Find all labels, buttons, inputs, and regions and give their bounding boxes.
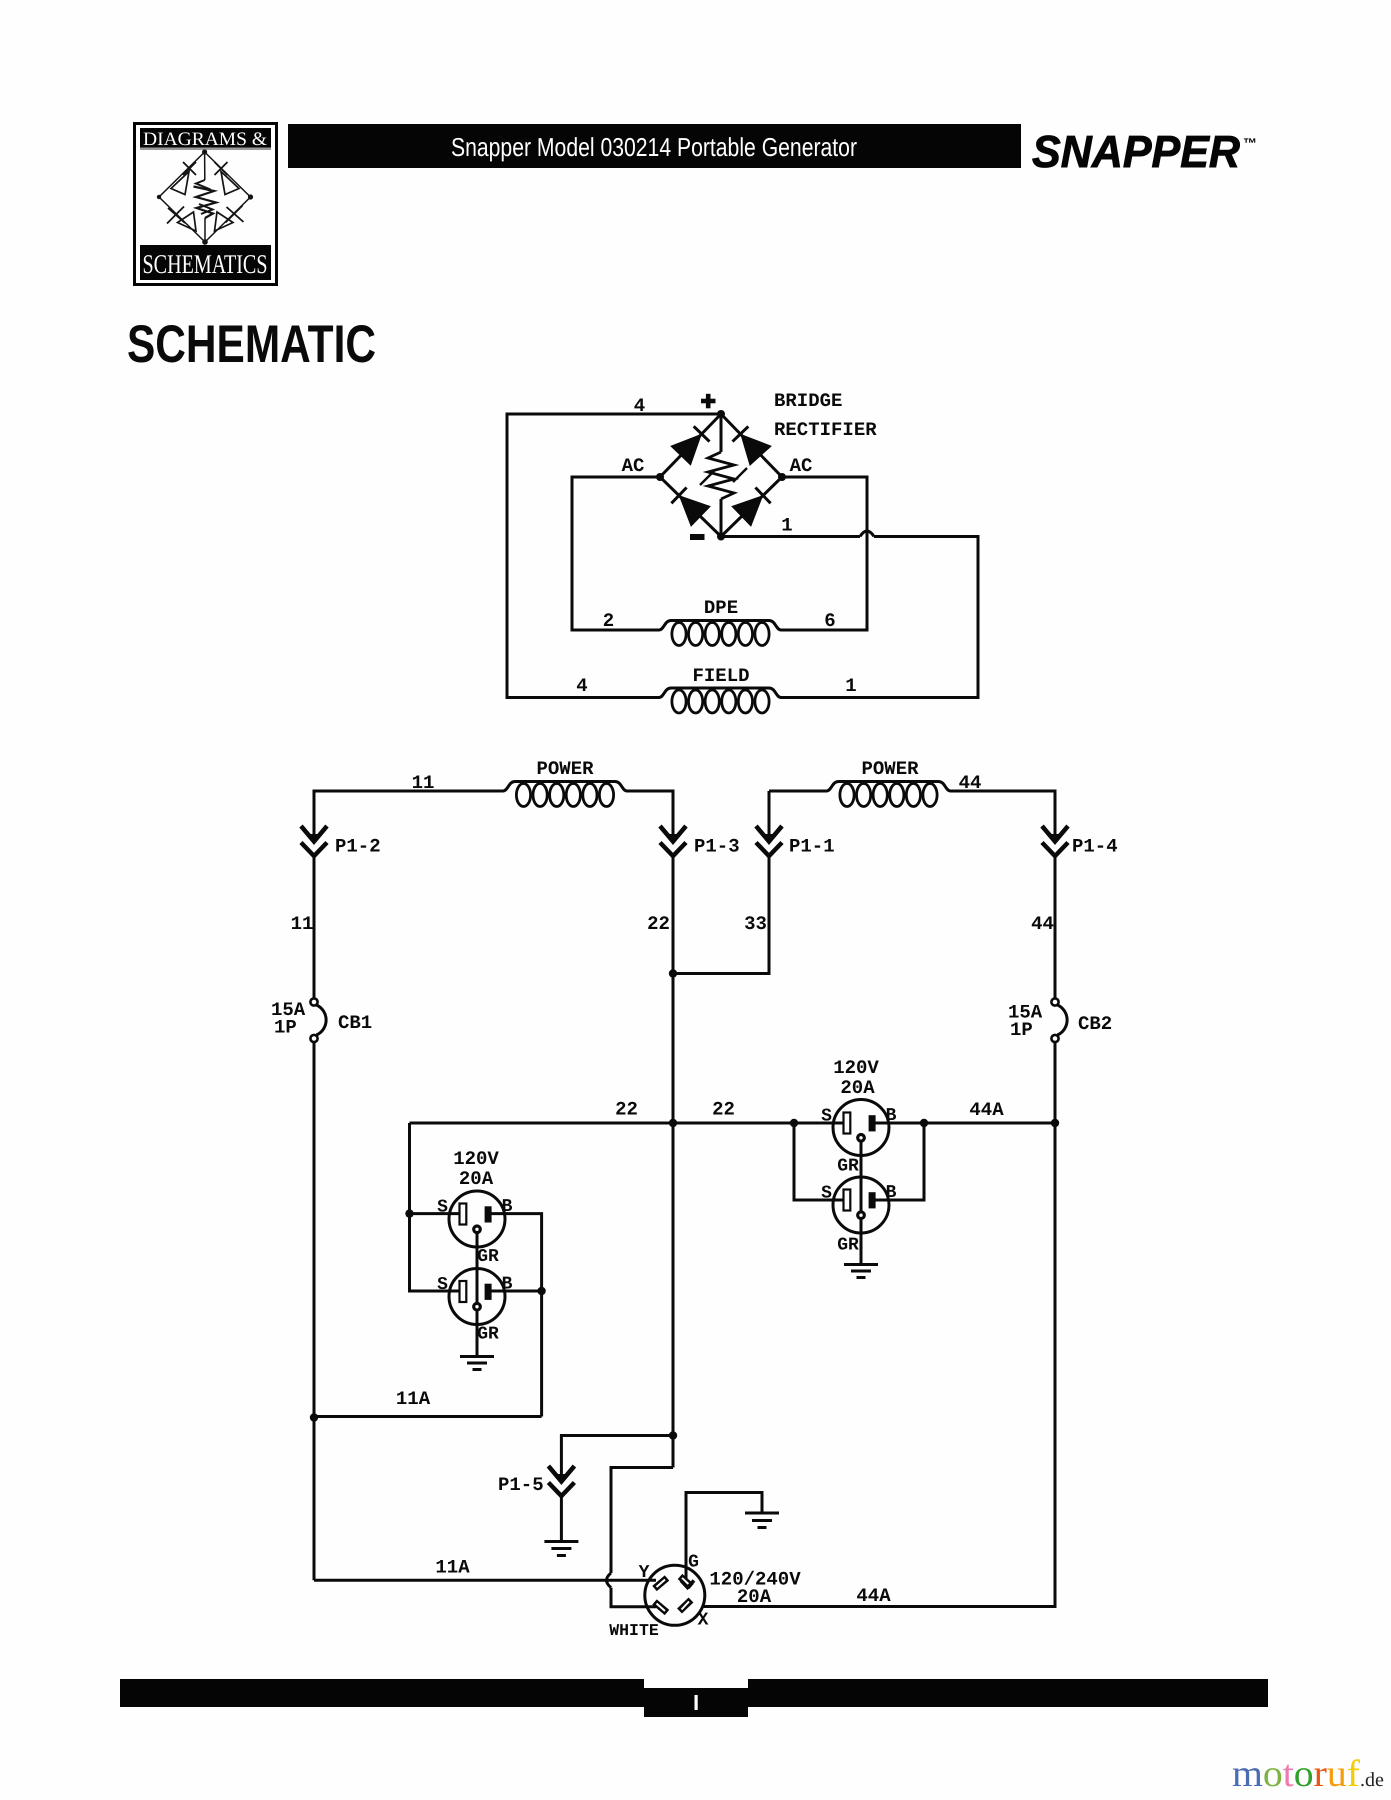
svg-text:120V: 120V [833, 1057, 879, 1079]
receptacle J2 120V 20A [437, 1269, 513, 1345]
svg-text:11A: 11A [396, 1388, 431, 1410]
svg-text:FIELD: FIELD [692, 665, 749, 687]
svg-text:SCHEMATIC: SCHEMATIC [127, 315, 376, 374]
ground (right pair) [844, 1265, 878, 1278]
svg-text:1: 1 [781, 515, 792, 537]
wire power coil 2 right [951, 791, 1056, 838]
ground (P1-5) [544, 1542, 578, 1556]
wire power coil 1 right to P1-3 [627, 791, 673, 838]
svg-text:B: B [886, 1106, 897, 1126]
node AC right [778, 473, 786, 481]
wire 11 (left drop) [313, 856, 316, 998]
svg-text:motoruf: motoruf [1232, 1753, 1360, 1795]
junction (22 bus / center drop) [669, 1119, 677, 1127]
svg-text:6: 6 [824, 610, 835, 632]
connector P1-1 [756, 826, 835, 858]
svg-text:33: 33 [744, 913, 767, 935]
svg-text:WHITE: WHITE [609, 1621, 659, 1640]
svg-text:4: 4 [576, 675, 587, 697]
svg-text:P1-5: P1-5 [498, 1474, 544, 1496]
svg-text:POWER: POWER [861, 758, 919, 780]
wire neutral to W (with hop over 11A) [607, 1468, 674, 1607]
svg-text:GR: GR [477, 1247, 499, 1267]
junction (11A / left main) [310, 1413, 318, 1421]
wire rec1 right to rec2 right [488, 1214, 542, 1417]
svg-text:SCHEMATICS: SCHEMATICS [143, 249, 268, 279]
Diagrams &amp; Schematics logo [135, 124, 277, 285]
wire 11A (upper) [315, 1415, 542, 1418]
svg-text:22: 22 [615, 1099, 638, 1121]
junction (22 bus / right main) [1051, 1119, 1059, 1127]
wire 22 (center drop) [672, 856, 675, 1468]
svg-text:1P: 1P [1010, 1019, 1033, 1041]
node + (bridge top) [717, 410, 725, 418]
ground (G terminal) [745, 1513, 779, 1528]
connector P1-5 [498, 1466, 574, 1496]
svg-text:22: 22 [647, 913, 670, 935]
bridge internal resistor [708, 452, 734, 499]
diode D2 top-right [733, 426, 770, 463]
svg-text:GR: GR [837, 1236, 859, 1256]
header bar [288, 124, 1021, 168]
svg-text:.de: .de [1360, 1769, 1384, 1791]
svg-text:POWER: POWER [536, 758, 594, 780]
svg-text:AC: AC [622, 455, 645, 477]
wire 11A (lower, to Y) [314, 1579, 656, 1582]
inductor DPE [659, 621, 781, 631]
connector P1-4 [1042, 826, 1118, 858]
svg-text:G: G [688, 1553, 699, 1573]
resistor sketch tick right [733, 468, 747, 482]
connector P1-3 [660, 826, 740, 858]
svg-text:GR: GR [837, 1157, 859, 1177]
svg-text:S: S [821, 1107, 832, 1127]
junction (P1-5 tap) [669, 1431, 677, 1439]
junction (rec1 left) [405, 1209, 413, 1217]
svg-text:DPE: DPE [704, 597, 738, 619]
wire DPE right to AC right [781, 477, 867, 630]
svg-text:B: B [502, 1275, 513, 1295]
wire right pair feeders [794, 1123, 924, 1200]
node - (bridge bottom) [717, 533, 725, 541]
junction (rec3 right) [920, 1119, 928, 1127]
svg-text:20A: 20A [840, 1077, 875, 1099]
node AC left [656, 473, 664, 481]
wire 1 (bridge minus, with hop) [721, 531, 978, 698]
diode D4 bottom-right [734, 488, 771, 525]
svg-text:44A: 44A [969, 1099, 1004, 1121]
svg-text:11A: 11A [435, 1557, 470, 1579]
svg-text:44A: 44A [856, 1585, 891, 1607]
svg-text:120V: 120V [453, 1148, 499, 1170]
svg-text:11: 11 [291, 913, 314, 935]
receptacle J3 120V 20A [821, 1100, 897, 1177]
svg-text:P1-3: P1-3 [694, 836, 740, 858]
wire 22 (receptacle bus) [410, 1122, 1056, 1125]
wire 11 to 11A (left main drop) [313, 1042, 316, 1580]
svg-text:B: B [886, 1183, 897, 1203]
wire 44 (power coil 2) [769, 791, 827, 838]
wire 22 neutral to P1-5 [561, 1436, 673, 1479]
connector P1-2 [301, 826, 381, 858]
motoruf.de watermark [1232, 1753, 1384, 1795]
svg-text:1P: 1P [274, 1017, 297, 1039]
svg-text:AC: AC [790, 455, 813, 477]
svg-text:44: 44 [1031, 913, 1054, 935]
wire left pair feeder [410, 1123, 467, 1291]
svg-text:™: ™ [1243, 135, 1257, 151]
svg-text:Snapper Model 030214 Portable: Snapper Model 030214 Portable Generator [451, 132, 857, 162]
svg-text:22: 22 [712, 1099, 735, 1121]
svg-text:S: S [437, 1198, 448, 1218]
SNAPPER trademark logo [1032, 126, 1257, 177]
inductor POWER 2 [827, 782, 951, 792]
svg-text:CB2: CB2 [1078, 1013, 1112, 1035]
svg-text:S: S [437, 1275, 448, 1295]
ground (left pair) [460, 1357, 494, 1370]
bridge center line [720, 414, 723, 537]
wire 11 (power coil 1 left) [314, 791, 503, 838]
inductor POWER 1 [503, 782, 627, 792]
svg-text:20A: 20A [737, 1586, 772, 1608]
svg-text:4: 4 [634, 395, 645, 417]
junction (22/33) [669, 969, 677, 977]
diode D3 bottom-left [671, 488, 708, 525]
wire 44 to 44A (right main drop) [702, 1042, 1055, 1607]
footer bar [120, 1679, 1268, 1717]
diode D1 top-left [673, 426, 710, 463]
svg-text:CB1: CB1 [338, 1012, 372, 1034]
ground stem (right pair) [860, 1141, 863, 1265]
svg-text:DIAGRAMS &: DIAGRAMS & [143, 129, 267, 150]
svg-text:RECTIFIER: RECTIFIER [774, 419, 877, 441]
wire 33 (P1-1 drop) [673, 856, 769, 974]
svg-text:2: 2 [603, 610, 614, 632]
svg-text:B: B [502, 1197, 513, 1217]
svg-text:P1-4: P1-4 [1072, 836, 1118, 858]
svg-text:P1-1: P1-1 [789, 836, 835, 858]
svg-text:GR: GR [477, 1325, 499, 1345]
wire AC left to DPE [572, 477, 660, 630]
svg-text:X: X [698, 1611, 709, 1631]
svg-text:P1-2: P1-2 [335, 836, 381, 858]
svg-text:S: S [821, 1184, 832, 1204]
svg-text:SNAPPER: SNAPPER [1032, 126, 1240, 177]
breaker CB1 [271, 998, 372, 1042]
bridge rectifier diamond [660, 414, 782, 537]
svg-text:20A: 20A [459, 1168, 494, 1190]
svg-text:11: 11 [412, 772, 435, 794]
wire G to ground [686, 1493, 762, 1584]
wire 44 (right drop) [1054, 856, 1057, 998]
ground stem P1-5 [560, 1496, 563, 1542]
receptacle J4 120V 20A [821, 1177, 897, 1256]
receptacle J1 120V 20A [437, 1191, 513, 1267]
junction (rec2 right) [537, 1287, 545, 1295]
svg-text:Y: Y [639, 1563, 650, 1583]
resistor sketch tick left [700, 471, 714, 485]
receptacle J5 120/240V 20A twist-lock [609, 1553, 708, 1641]
ground stem (left pair) [476, 1232, 479, 1357]
SCHEMATIC DRAWING [271, 390, 1118, 1640]
svg-text:BRIDGE: BRIDGE [774, 390, 842, 412]
junction (rec3 left) [790, 1119, 798, 1127]
breaker CB2 [1008, 998, 1112, 1042]
svg-text:1: 1 [845, 675, 856, 697]
wire 4 (bridge + to field) [507, 414, 721, 698]
inductor FIELD [659, 688, 781, 698]
